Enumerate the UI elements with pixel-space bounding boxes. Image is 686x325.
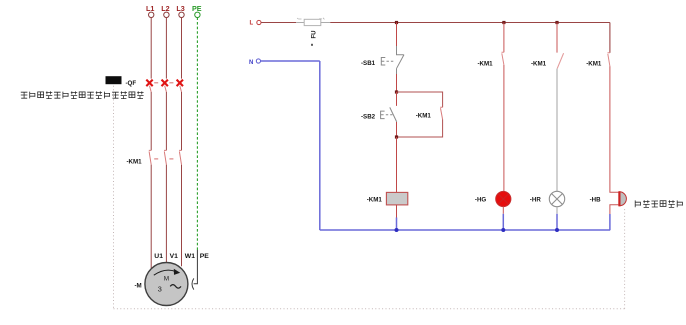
- wire L to fuse: [261, 22, 296, 24]
- contact KM1 for HG: [502, 52, 504, 65]
- node HG at N: [501, 228, 505, 232]
- wire contact to HR gray: [556, 69, 558, 192]
- wire HB to N blue part: [609, 214, 611, 230]
- svg-text:-SB1: -SB1: [361, 60, 376, 67]
- wire N vertical: [319, 61, 321, 230]
- wire PE dashed: [196, 17, 198, 250]
- contactor KM1 pole 2: [164, 150, 166, 164]
- node SB2 bottom: [395, 135, 398, 138]
- svg-text:-KM1: -KM1: [367, 196, 383, 203]
- wire to SB1: [396, 23, 398, 47]
- wire L3 mid: [181, 92, 183, 150]
- motor M circle: [145, 263, 188, 306]
- terminal N: [249, 59, 261, 66]
- wire branch HR upper: [556, 23, 558, 53]
- wire L1 mid: [150, 92, 152, 150]
- contact KM1 for HR: [557, 53, 563, 68]
- wire coil to N red part: [396, 205, 398, 218]
- pushbutton SB1 (NC): [381, 46, 404, 74]
- wire branch KM1 aux top: [397, 92, 443, 107]
- alarm linkage dotted wire: [114, 86, 625, 309]
- svg-text:-HR: -HR: [530, 197, 542, 204]
- contactor KM1 pole 1: [149, 150, 151, 164]
- wire branch KM1 aux bottom: [397, 120, 443, 138]
- wire L2 upper: [165, 17, 167, 78]
- svg-text:-HG: -HG: [475, 196, 487, 203]
- contact KM1 for HB: [608, 53, 610, 67]
- fuse FU pin 2: [321, 22, 330, 24]
- fuse FU pin number dot: [311, 44, 313, 46]
- svg-text:-KM1: -KM1: [586, 60, 602, 67]
- svg-text:W1: W1: [185, 253, 195, 260]
- terminal L2: [161, 4, 169, 18]
- svg-text:N: N: [249, 60, 253, 66]
- svg-text:-KM1: -KM1: [478, 60, 494, 67]
- fuse pin mark 1: [297, 18, 301, 19]
- node SB2 top: [395, 90, 398, 93]
- wire N horizontal top: [261, 60, 320, 62]
- node HR at N: [555, 228, 559, 232]
- wire W1 to motor: [181, 165, 183, 267]
- breaker QF pole 3: [177, 80, 183, 92]
- lamp HR: [549, 191, 564, 206]
- svg-text:PE: PE: [200, 253, 210, 260]
- motor rotation arrow: [154, 270, 175, 275]
- svg-text:V1: V1: [170, 253, 179, 260]
- contact KM1 aux (NO, self holding): [440, 107, 442, 119]
- wire HG to N red part: [502, 207, 504, 214]
- note text chinese: alarm device power: [635, 200, 683, 207]
- wire HB to N red part: [610, 205, 619, 214]
- svg-text:-KM1: -KM1: [416, 113, 432, 120]
- svg-text:L1: L1: [146, 4, 154, 13]
- node at SB1 branch: [395, 21, 398, 24]
- contactor KM1 linkage dash 1: [154, 158, 158, 160]
- wire L3 upper: [181, 17, 183, 78]
- fuse FU pin 1: [296, 22, 304, 24]
- node coil at N: [395, 228, 399, 232]
- svg-text:M: M: [164, 276, 169, 283]
- wire PE solid to motor: [194, 250, 198, 284]
- wire branch HB corner: [609, 23, 611, 53]
- terminal L: [250, 20, 262, 26]
- node at HR branch: [555, 21, 558, 24]
- svg-text:L3: L3: [176, 4, 184, 13]
- wire coil to N blue part: [396, 218, 398, 231]
- buzzer HB: [619, 191, 626, 206]
- svg-text:3: 3: [158, 285, 162, 294]
- wire L1 upper: [150, 17, 152, 78]
- wire contact to HG: [503, 65, 505, 192]
- wire SB2 to node: [396, 122, 398, 137]
- wire N bus bottom: [320, 229, 610, 231]
- svg-text:-QF: -QF: [126, 80, 137, 87]
- wire L2 mid: [165, 92, 167, 150]
- svg-text:FU: FU: [312, 31, 318, 39]
- wire to coil KM1: [396, 137, 398, 192]
- pushbutton SB2 (NO): [381, 107, 397, 122]
- wire node to SB2: [396, 92, 398, 106]
- terminal L1: [146, 4, 154, 18]
- wire HG to N blue part: [502, 214, 504, 230]
- svg-text:-SB2: -SB2: [361, 113, 376, 120]
- wire branch HG upper: [503, 23, 505, 53]
- terminal L3: [176, 4, 184, 18]
- svg-text:U1: U1: [154, 253, 163, 260]
- node at HG branch: [502, 21, 505, 24]
- svg-text:-KM1: -KM1: [127, 158, 143, 165]
- fuse FU body: [304, 19, 321, 25]
- svg-text:L: L: [250, 20, 254, 26]
- wire U1 to motor: [150, 165, 152, 268]
- wire V1 to motor: [165, 165, 167, 263]
- svg-text:-HB: -HB: [590, 196, 602, 203]
- breaker QF pole 1: [146, 80, 152, 92]
- svg-text:-KM1: -KM1: [531, 60, 547, 67]
- motor tilde: [170, 285, 181, 289]
- wire SB1 to node: [396, 74, 398, 92]
- coil KM1: [386, 192, 407, 205]
- note text chinese: alarm when handle touched: [21, 91, 144, 98]
- svg-text:L2: L2: [161, 4, 169, 13]
- breaker QF linkage dash 1: [154, 82, 158, 84]
- contactor KM1 linkage dash 2: [169, 158, 173, 160]
- contactor KM1 pole 3: [179, 150, 181, 164]
- fuse pin mark 2: [319, 18, 324, 20]
- breaker QF pole 2: [162, 80, 168, 92]
- breaker QF linkage dash 2: [169, 82, 173, 84]
- wire HR to N blue part: [556, 214, 558, 230]
- terminal PE: [192, 4, 202, 18]
- PE clamp on motor frame: [192, 278, 194, 289]
- lamp HG: [496, 191, 511, 206]
- breaker QF handle box: [106, 76, 122, 84]
- svg-text:-M: -M: [135, 282, 142, 289]
- wire top bus: [330, 22, 610, 24]
- wire contact to HB: [610, 66, 619, 192]
- wire HR to N gray part: [556, 207, 558, 214]
